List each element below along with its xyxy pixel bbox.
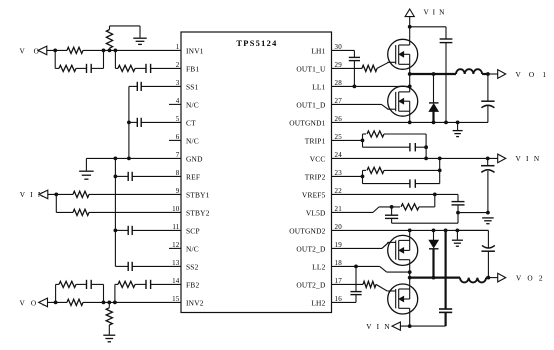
svg-text:SCP: SCP	[186, 227, 200, 236]
svg-text:OUT2_D: OUT2_D	[296, 281, 326, 290]
svg-text:FB2: FB2	[186, 281, 199, 290]
svg-text:STBY1: STBY1	[186, 191, 210, 200]
svg-text:VCC: VCC	[310, 155, 326, 164]
svg-text:SS1: SS1	[186, 83, 199, 92]
svg-text:TPS5124: TPS5124	[236, 39, 277, 48]
svg-text:VREF5: VREF5	[302, 191, 326, 200]
svg-text:V I N: V I N	[516, 154, 542, 163]
svg-text:LH1: LH1	[311, 47, 325, 56]
svg-text:STBY2: STBY2	[186, 209, 210, 218]
svg-text:GND: GND	[186, 155, 203, 164]
svg-text:REF: REF	[186, 173, 200, 182]
svg-text:LL1: LL1	[312, 83, 325, 92]
svg-text:TRIP2: TRIP2	[305, 173, 326, 182]
svg-text:N/C: N/C	[186, 101, 199, 110]
svg-text:VL5D: VL5D	[306, 209, 326, 218]
svg-text:INV1: INV1	[186, 47, 204, 56]
svg-text:V O 1: V O 1	[516, 70, 550, 79]
svg-text:OUTGND2: OUTGND2	[289, 227, 325, 236]
svg-text:N/C: N/C	[186, 245, 199, 254]
svg-text:V O 2: V O 2	[516, 273, 545, 282]
svg-text:V I N: V I N	[366, 322, 391, 331]
svg-text:N/C: N/C	[186, 137, 199, 146]
svg-text:OUTGND1: OUTGND1	[289, 119, 325, 128]
svg-text:LH2: LH2	[311, 299, 325, 308]
svg-text:OUT1_U: OUT1_U	[296, 65, 326, 74]
svg-text:V I N: V I N	[424, 8, 446, 17]
svg-text:OUT1_D: OUT1_D	[296, 101, 326, 110]
svg-text:OUT2_D: OUT2_D	[296, 245, 326, 254]
svg-text:SS2: SS2	[186, 263, 199, 272]
svg-text:LL2: LL2	[312, 263, 325, 272]
svg-text:INV2: INV2	[186, 299, 204, 308]
svg-text:FB1: FB1	[186, 65, 199, 74]
svg-text:CT: CT	[186, 119, 196, 128]
svg-text:TRIP1: TRIP1	[305, 137, 326, 146]
